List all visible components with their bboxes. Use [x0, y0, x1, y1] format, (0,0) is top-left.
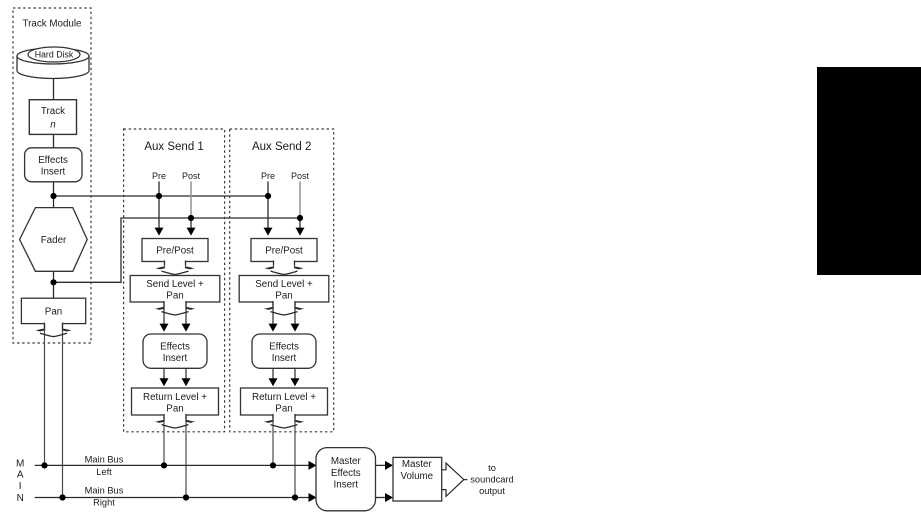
aux2 arrow post into pre/post — [296, 228, 305, 236]
hard disk cylinder — [17, 48, 89, 79]
aux1 pre wire — [158, 182, 160, 230]
master volume box — [393, 457, 442, 501]
wire fader to pan — [53, 271, 55, 298]
node pan left on bus — [41, 462, 47, 468]
aux2 send level box — [239, 276, 329, 303]
aux1 arrow post into pre/post — [187, 228, 196, 236]
aux2 pre/post box — [251, 239, 317, 262]
aux2 wire return left to main bus left — [272, 415, 274, 465]
svg-text:output: output — [479, 486, 505, 496]
pan box — [21, 298, 85, 323]
svg-text:Insert: Insert — [163, 353, 188, 364]
svg-text:Pan: Pan — [166, 403, 183, 414]
wire pan right output to main bus right — [62, 324, 64, 498]
arrow into master volume right — [385, 493, 393, 502]
node pre-fader junction — [50, 193, 56, 199]
aux2 arrow into return right — [291, 378, 300, 386]
aux2 arrow into effects left — [269, 324, 278, 332]
svg-text:I: I — [19, 481, 22, 492]
svg-text:Main Bus: Main Bus — [85, 485, 124, 495]
effects insert (track) box — [25, 148, 82, 182]
svg-text:n: n — [50, 120, 55, 131]
wire post-fader bus — [54, 218, 301, 282]
arrow into master volume left — [385, 461, 393, 470]
svg-text:Post: Post — [182, 171, 201, 181]
aux2 arrow into return left — [269, 378, 278, 386]
wire pre-fader bus — [54, 195, 269, 197]
aux1 wire return right to main bus right — [185, 415, 187, 498]
aux2 wire send level to effects left — [272, 302, 274, 325]
aux2 post wire upper (gray) — [299, 182, 301, 219]
svg-text:A: A — [17, 470, 24, 481]
node aux2 return right on bus — [292, 494, 298, 500]
node aux2 return left on bus — [270, 462, 276, 468]
wire hard disk to track box — [53, 78, 55, 100]
svg-text:Track: Track — [41, 106, 65, 117]
aux1 node on pre bus — [156, 193, 162, 199]
svg-text:to: to — [488, 463, 496, 473]
svg-text:M: M — [16, 459, 24, 470]
aux2 wire effects to return left — [272, 368, 274, 380]
svg-text:Effects: Effects — [269, 341, 299, 352]
aux2 splitter under return level — [264, 414, 304, 428]
aux2 pre wire — [267, 182, 269, 230]
aux1 arrow into return right — [182, 378, 191, 386]
aux1 wire effects to return right — [185, 368, 187, 380]
node aux1 return left on bus — [161, 462, 167, 468]
aux1 splitter under return level — [155, 414, 195, 428]
aux1 wire send level to effects right — [185, 302, 187, 325]
wire effects insert to fader — [53, 182, 55, 208]
svg-text:soundcard: soundcard — [470, 474, 513, 484]
Track Module dashed container — [13, 8, 91, 343]
aux1 merge under pre/post — [156, 260, 195, 274]
svg-text:N: N — [17, 493, 24, 504]
svg-text:Return Level +: Return Level + — [252, 392, 316, 403]
svg-text:Master: Master — [402, 459, 433, 470]
aux1 node on post bus — [188, 215, 194, 221]
aux1 splitter under send level — [155, 301, 195, 315]
svg-text:Pan: Pan — [275, 290, 292, 301]
aux1 arrow into return left — [160, 378, 169, 386]
aux1 effects insert box — [143, 334, 207, 368]
aux1 wire send level to effects left — [163, 302, 165, 325]
arrow main bus left into master effects — [309, 461, 317, 470]
svg-text:Insert: Insert — [272, 353, 297, 364]
svg-text:Pan: Pan — [166, 290, 183, 301]
pan output splitter — [36, 322, 72, 336]
soundcard output funnel — [442, 463, 468, 496]
aux1 arrow pre into pre/post — [155, 228, 164, 236]
aux2 return level box — [241, 388, 328, 415]
aux1 post wire lower — [190, 218, 192, 229]
node post-fader junction — [50, 279, 56, 285]
svg-text:Pre/Post: Pre/Post — [265, 245, 303, 256]
aux2 wire effects to return right — [294, 368, 296, 380]
aux2 splitter under send level — [264, 301, 304, 315]
aux2 node on pre bus — [265, 193, 271, 199]
svg-text:Insert: Insert — [41, 166, 66, 177]
svg-text:Volume: Volume — [400, 471, 433, 482]
node aux1 return right on bus — [183, 494, 189, 500]
wire pan left output to main bus left — [44, 324, 46, 466]
master effects insert box — [316, 448, 376, 511]
aux1 send level box — [130, 276, 220, 303]
svg-text:Pan: Pan — [45, 306, 62, 317]
svg-text:Send Level +: Send Level + — [146, 279, 204, 290]
wire master effects to master volume left — [376, 464, 387, 466]
svg-text:Effects: Effects — [38, 155, 68, 166]
svg-text:Return Level +: Return Level + — [143, 392, 207, 403]
svg-text:Effects: Effects — [331, 468, 361, 479]
aux2 post wire lower — [299, 218, 301, 229]
track box — [29, 100, 76, 135]
arrow main bus right into master effects — [309, 493, 317, 502]
aux2 arrow into effects right — [291, 324, 300, 332]
black redaction rectangle — [817, 67, 921, 275]
svg-text:Main Bus: Main Bus — [85, 455, 124, 465]
svg-text:Pan: Pan — [275, 403, 292, 414]
svg-text:Left: Left — [96, 467, 112, 477]
hard disk label ellipse — [28, 47, 80, 62]
svg-text:Hard Disk: Hard Disk — [35, 50, 74, 60]
svg-text:Post: Post — [291, 171, 310, 181]
node pan right on bus — [59, 494, 65, 500]
svg-text:Insert: Insert — [334, 480, 359, 491]
svg-text:Pre: Pre — [152, 171, 166, 181]
Aux Send 2 dashed container — [230, 129, 334, 432]
Aux Send 1 dashed container — [124, 129, 225, 432]
aux1 wire return left to main bus left — [163, 415, 165, 465]
svg-text:Pre/Post: Pre/Post — [156, 245, 194, 256]
wire master effects to master volume right — [376, 497, 387, 499]
main bus right wire — [35, 497, 309, 499]
aux1 post wire upper (gray) — [190, 182, 192, 219]
svg-text:Right: Right — [93, 498, 115, 508]
main bus left wire — [35, 464, 309, 466]
aux1 wire effects to return left — [163, 368, 165, 380]
svg-text:Aux Send 1: Aux Send 1 — [144, 141, 203, 153]
aux2 wire return right to main bus right — [294, 415, 296, 498]
aux1 arrow into effects left — [160, 324, 169, 332]
wire track box to effects insert — [53, 134, 55, 148]
aux1 return level box — [132, 388, 219, 415]
svg-text:Pre: Pre — [261, 171, 275, 181]
aux2 wire send level to effects right — [294, 302, 296, 325]
fader hexagon — [20, 208, 88, 272]
aux1 arrow into effects right — [182, 324, 191, 332]
aux1 pre/post box — [142, 239, 208, 262]
aux2 node on post bus — [297, 215, 303, 221]
aux2 arrow pre into pre/post — [264, 228, 273, 236]
svg-text:Aux Send 2: Aux Send 2 — [252, 141, 311, 153]
svg-text:Send Level +: Send Level + — [255, 279, 313, 290]
aux2 merge under pre/post — [265, 260, 304, 274]
aux2 effects insert box — [252, 334, 316, 368]
svg-text:Effects: Effects — [160, 341, 190, 352]
svg-text:Master: Master — [331, 456, 362, 467]
svg-text:Fader: Fader — [41, 235, 67, 246]
svg-text:Track Module: Track Module — [23, 18, 83, 29]
